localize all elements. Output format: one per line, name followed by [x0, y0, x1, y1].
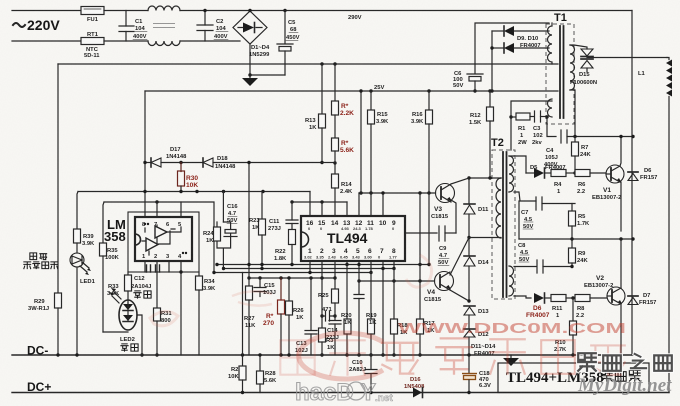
wire 290V corner down right side — [631, 11, 633, 356]
wire D17 col — [144, 91, 146, 217]
wire LM358 pin7 — [156, 202, 158, 217]
resistor R6 — [575, 170, 606, 196]
diode D7 FR157 — [628, 293, 656, 306]
wire 290V branch to T1 — [475, 23, 549, 64]
capacitor C8 — [514, 243, 574, 273]
svg-text:Y: Y — [360, 379, 376, 406]
T2 secondary top tap to D5 — [514, 156, 526, 173]
25V rail — [145, 90, 558, 92]
bus line A — [217, 264, 429, 266]
capacitor C18 — [462, 355, 491, 394]
node fb — [545, 115, 548, 118]
resistor R2 — [228, 273, 246, 395]
watermark red logo arc — [299, 333, 383, 379]
main rail wire — [58, 63, 558, 65]
TL494 bottom pin wires — [310, 261, 394, 355]
ground right — [503, 355, 519, 366]
DC- rail — [12, 354, 633, 356]
resistor R5 — [569, 204, 591, 240]
watermark red chinese characters — [280, 338, 625, 374]
capacitor C9 — [438, 226, 456, 266]
capacitor C1 — [119, 11, 147, 42]
transistor V4 — [424, 238, 469, 304]
bridge rectifier D1~D4 — [233, 11, 270, 58]
resistor R2.2K star — [332, 62, 355, 138]
transistor V2 — [584, 275, 625, 305]
svg-text:MyDigit.net: MyDigit.net — [577, 375, 672, 396]
resistor R33 — [107, 272, 132, 303]
resistor R12 — [469, 89, 494, 178]
DC+ rail — [12, 392, 669, 394]
capacitor C5 electrolytic — [277, 9, 300, 75]
T1 feedback winding loop with R1 C3 — [509, 101, 552, 150]
resistor R20 — [341, 265, 352, 357]
fuse FU1 — [81, 7, 104, 24]
resistor R9 — [569, 239, 589, 267]
resistor R7 — [572, 137, 592, 174]
junction — [203, 9, 206, 12]
diode D6 FR157 — [628, 168, 657, 181]
resistor R27 — [244, 161, 256, 355]
wire T2 primary bottom — [469, 237, 501, 239]
LED2 — [109, 288, 138, 351]
transformer T2 — [491, 137, 515, 299]
dual diode D15 — [570, 45, 597, 86]
wire bridge to ground — [250, 44, 285, 75]
wire LED2 anode — [137, 315, 142, 355]
resistor R24 — [203, 222, 231, 269]
diode D18 — [203, 156, 321, 170]
wire mid row — [519, 238, 633, 240]
transistor V1 — [592, 165, 624, 201]
wire — [180, 40, 240, 42]
resistor R13 — [305, 62, 326, 164]
svg-text:hacD: hacD — [295, 379, 354, 406]
V3 emitter wire — [451, 200, 456, 233]
wire LM358 pin1-4 below — [145, 261, 181, 272]
junction — [248, 9, 251, 12]
node V4 emitter — [467, 299, 470, 302]
thermistor RT1 — [81, 32, 104, 59]
capacitor C4 — [544, 130, 633, 168]
op-amp U2 LM358 — [104, 212, 199, 272]
bus line C — [214, 272, 371, 274]
bus line B — [224, 268, 395, 270]
diode D10 — [492, 43, 549, 53]
transformer T1 — [546, 12, 575, 124]
wire R13 R14 tie — [322, 162, 335, 164]
resistor R30 — [178, 161, 199, 193]
node T2 primary bottom / V4 collector — [467, 236, 470, 239]
capacitor C11 — [268, 202, 298, 232]
diode D12 — [464, 329, 489, 355]
node C4 line — [631, 135, 634, 138]
title box — [498, 363, 649, 393]
capacitor C7 — [521, 197, 575, 230]
wire D15 out — [587, 57, 667, 59]
resistor R8 — [575, 295, 607, 320]
LED1 — [70, 253, 96, 355]
resistor R11 — [551, 295, 575, 320]
label charging — [134, 291, 151, 298]
AC source label ~220V — [13, 17, 60, 33]
capacitor pin5 — [354, 295, 364, 357]
diode D5 — [526, 165, 566, 178]
wire top feed line — [78, 191, 310, 193]
capacitor C13 — [295, 278, 317, 355]
resistor R1 — [516, 113, 534, 146]
diode D6 FR4007 — [526, 293, 551, 319]
wire — [180, 10, 632, 12]
capacitor C10 — [349, 355, 377, 394]
capacitor C6 — [453, 64, 483, 91]
watermark digit home — [578, 353, 672, 371]
wire pin4 down to DC- — [180, 272, 182, 355]
wire V3 base — [359, 192, 436, 194]
inductor L1 — [638, 58, 672, 393]
bus junctions — [212, 263, 430, 280]
ground — [242, 75, 258, 86]
wire — [104, 10, 148, 12]
node — [573, 171, 576, 174]
svg-text:.net: .net — [375, 393, 393, 404]
resistor R19 — [366, 273, 377, 357]
diode D17 — [145, 147, 203, 167]
V2 collector wire — [620, 239, 622, 288]
bus line D — [249, 277, 335, 279]
wire to C4 — [547, 117, 556, 137]
resistor R31 — [154, 272, 173, 357]
resistor Rstar 270 — [263, 278, 285, 355]
V1 emitter wire — [620, 182, 622, 231]
capacitor 471 — [322, 307, 337, 321]
resistor R29 — [28, 293, 62, 355]
resistor R15 — [368, 89, 390, 193]
resistor R4 — [551, 170, 575, 196]
wire LM358 pin5 — [180, 202, 182, 217]
wire D9-D10 join — [491, 31, 493, 91]
V4 base wire — [359, 280, 435, 282]
resistor R39 — [74, 192, 96, 254]
diode D9 — [492, 26, 549, 36]
wire L top — [12, 10, 81, 12]
resistor R5.6K star — [332, 138, 355, 174]
resistor R34 — [196, 272, 217, 355]
resistor R26 — [286, 278, 305, 355]
wire second feed line — [104, 202, 347, 273]
common mode choke L — [148, 6, 180, 46]
IC U1 TL494 — [301, 216, 405, 261]
wire — [104, 40, 148, 42]
watermark haoDIY — [295, 379, 393, 406]
diode D16 — [404, 377, 425, 398]
V2 emitter wire — [620, 304, 622, 355]
resistor R17 — [381, 193, 435, 357]
resistor R18 — [391, 269, 409, 357]
diode D13 — [464, 306, 489, 329]
resistor R22 — [274, 230, 296, 265]
junction feed line — [195, 190, 198, 193]
capacitor C16 — [223, 192, 238, 237]
wire C7 row — [514, 192, 536, 201]
diode column D11 — [464, 178, 489, 236]
watermark red stain strokes — [150, 255, 432, 326]
capacitor C3 — [532, 111, 547, 146]
junctions on V3 base wire — [359, 191, 362, 194]
node — [571, 296, 574, 299]
resistor R14 — [332, 174, 354, 216]
left column wire — [57, 64, 59, 293]
capacitor C2 — [197, 11, 228, 42]
T1 secondary bottom tap — [570, 90, 575, 136]
wire LED2 bottom link — [103, 331, 128, 333]
capacitor C12 — [131, 265, 160, 290]
capacitor C15 — [254, 278, 276, 297]
wire N bottom — [12, 40, 81, 42]
diode D14 — [464, 238, 489, 302]
label power indicator — [24, 253, 58, 269]
resistor R25 — [318, 278, 339, 320]
resistor R16 — [411, 89, 433, 264]
V1 collector wire — [620, 137, 621, 167]
resistor R10 — [554, 298, 577, 357]
TL494 top pin wires — [309, 192, 311, 217]
resistor R35 — [100, 202, 120, 332]
wire pin9 row — [405, 232, 437, 234]
wire col — [360, 91, 362, 193]
wire V3 collector node to T2 primary — [469, 177, 501, 179]
wire T2 sec bottom to D6 row — [514, 296, 531, 298]
resistor R28 — [257, 353, 278, 392]
resistor R3 — [319, 278, 336, 357]
capacitor C14 — [326, 321, 341, 356]
svg-text:WWW.DDC0M.COM: WWW.DDC0M.COM — [398, 320, 626, 337]
transistor V3 — [431, 178, 469, 220]
resistor R23 — [249, 192, 266, 269]
